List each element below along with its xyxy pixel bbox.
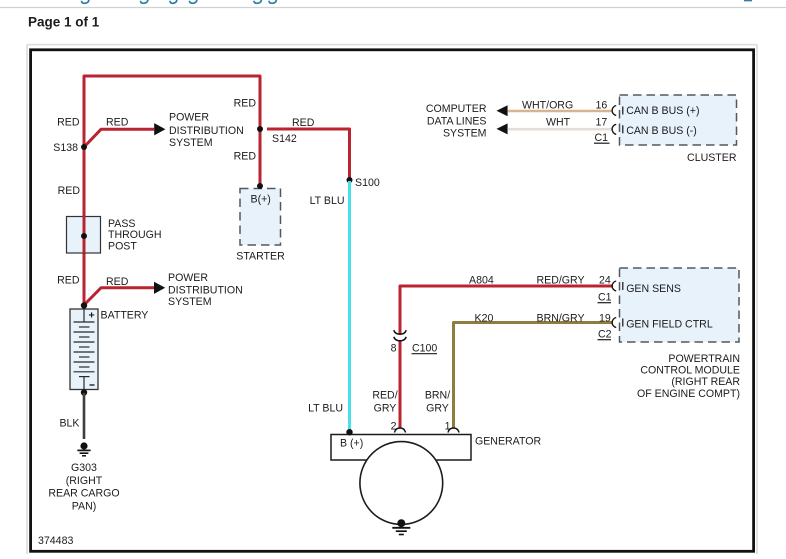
svg-text:BATTERY: BATTERY xyxy=(101,310,149,322)
svg-text:RED: RED xyxy=(106,117,129,129)
svg-text:BRN/GRY: BRN/GRY xyxy=(537,313,585,325)
svg-text:+: + xyxy=(89,310,95,322)
cluster box (dashed) xyxy=(620,95,737,145)
wire: red S138 down through pass-through post to battery xyxy=(83,147,86,305)
svg-text:RED: RED xyxy=(292,117,315,129)
label POWERTRAIN CONTROL MODULE xyxy=(637,353,740,400)
label C100 xyxy=(412,343,438,355)
svg-text:CAN B BUS (+): CAN B BUS (+) xyxy=(626,105,699,117)
svg-text:LT BLU: LT BLU xyxy=(310,195,345,207)
svg-text:19: 19 xyxy=(599,313,611,325)
svg-text:C2: C2 xyxy=(598,329,612,341)
svg-text:THROUGH: THROUGH xyxy=(108,229,162,241)
label G303 (RIGHT REAR CARGO PAN) xyxy=(48,462,119,512)
svg-text:S100: S100 xyxy=(355,177,380,189)
wire: red S142 right then down to S100 xyxy=(267,129,350,180)
svg-text:RED: RED xyxy=(234,151,257,163)
svg-text:C1: C1 xyxy=(595,132,609,144)
svg-text:POWER: POWER xyxy=(168,272,208,284)
pin24 inner tick xyxy=(622,282,624,290)
starter box (dashed) xyxy=(240,189,281,246)
svg-text:RED: RED xyxy=(58,185,81,197)
wire: RED/GRY A804 from PCM to generator pin 2 xyxy=(400,286,613,334)
svg-text:K20: K20 xyxy=(475,313,494,325)
svg-text:17: 17 xyxy=(596,116,608,128)
svg-text:G303: G303 xyxy=(71,462,97,474)
node: battery negative junction dot xyxy=(81,389,87,395)
wire WHT to cluster xyxy=(508,128,613,131)
svg-text:GEN FIELD CTRL: GEN FIELD CTRL xyxy=(626,319,713,331)
wire WHT/ORG to cluster xyxy=(508,110,613,113)
svg-text:LT BLU: LT BLU xyxy=(308,403,343,415)
label BRN/ GRY (generator pin 1) xyxy=(425,390,450,415)
label PASS THROUGH POST xyxy=(108,218,162,253)
wire: red branch S138 to power distribution system xyxy=(84,129,154,147)
svg-text:DISTRIBUTION: DISTRIBUTION xyxy=(168,285,243,297)
label POWER DISTRIBUTION SYSTEM (lower) xyxy=(168,272,243,308)
svg-text:SYSTEM: SYSTEM xyxy=(168,296,212,308)
PCM box (dashed) xyxy=(620,268,740,342)
svg-text:S138: S138 xyxy=(53,142,78,154)
battery box xyxy=(70,309,98,390)
svg-text:WHT: WHT xyxy=(546,116,571,128)
svg-text:STARTER: STARTER xyxy=(236,251,285,263)
node S142 dot xyxy=(257,126,263,132)
node: starter B(+) dot xyxy=(257,183,263,189)
battery plates xyxy=(74,309,95,390)
pin17 inner tick xyxy=(622,125,624,133)
wire: red branch battery to power distribution system xyxy=(84,288,154,305)
svg-text:RED/GRY: RED/GRY xyxy=(537,275,585,287)
svg-text:BRN/: BRN/ xyxy=(425,390,450,402)
svg-text:POWER: POWER xyxy=(169,111,209,123)
svg-text:C1: C1 xyxy=(598,292,612,304)
arrow to computer data lines (17) xyxy=(497,123,508,134)
label POWER DISTRIBUTION SYSTEM (top) xyxy=(169,111,244,149)
connector C1 pcm xyxy=(598,292,612,304)
svg-text:B (+): B (+) xyxy=(340,438,363,450)
svg-text:PASS: PASS xyxy=(108,218,135,230)
svg-text:WHT/ORG: WHT/ORG xyxy=(522,100,573,112)
node: generator B(+) dot xyxy=(346,429,352,435)
svg-text:A804: A804 xyxy=(469,275,494,287)
pin16 inner tick xyxy=(622,107,624,115)
label COMPUTER DATA LINES SYSTEM xyxy=(426,103,487,140)
svg-text:GRY: GRY xyxy=(426,403,449,415)
connector arc pin24 xyxy=(612,281,616,291)
battery minus sign xyxy=(90,384,95,386)
svg-text:RED: RED xyxy=(106,276,129,288)
svg-text:CONTROL MODULE: CONTROL MODULE xyxy=(640,365,740,377)
svg-text:PAN): PAN) xyxy=(72,500,97,512)
cut-off page heading (teal descenders) xyxy=(82,0,753,3)
svg-text:Page 1 of 1: Page 1 of 1 xyxy=(28,14,100,29)
generator body rect xyxy=(331,435,471,461)
svg-text:CAN B BUS (-): CAN B BUS (-) xyxy=(626,125,697,137)
generator pin 1 entry arc xyxy=(448,428,459,433)
connector C1 cluster xyxy=(594,132,610,144)
wire: LT BLU S100 to generator xyxy=(348,181,351,433)
svg-text:16: 16 xyxy=(596,100,608,112)
connector arc pin17 xyxy=(612,124,616,134)
svg-text:DATA LINES: DATA LINES xyxy=(427,115,487,127)
wire: BRN/GRY K20 from PCM to generator pin 1 xyxy=(454,323,614,429)
arrow to power distribution system (top) xyxy=(154,123,165,135)
svg-text:REAR CARGO: REAR CARGO xyxy=(48,488,119,500)
header rule xyxy=(0,7,786,9)
svg-text:RED: RED xyxy=(57,117,80,129)
wire: red S142 down to starter B(+) xyxy=(259,129,262,186)
svg-text:GRY: GRY xyxy=(374,403,397,415)
pass-through post box xyxy=(67,217,101,254)
label RED/ GRY (generator pin 2) xyxy=(372,390,397,415)
connector C100 arcs xyxy=(394,330,406,341)
svg-text:SYSTEM: SYSTEM xyxy=(169,137,213,149)
svg-text:GENERATOR: GENERATOR xyxy=(475,435,541,447)
svg-text:RED: RED xyxy=(234,98,257,110)
svg-text:C100: C100 xyxy=(412,343,437,355)
arrow to power distribution system (lower) xyxy=(154,282,165,294)
svg-text:RED: RED xyxy=(57,275,80,287)
svg-text:GEN SENS: GEN SENS xyxy=(626,283,681,295)
node S100 dot xyxy=(347,177,353,183)
pass-through post wire overlay xyxy=(83,216,86,253)
node: pass-through post junction dot xyxy=(81,233,87,239)
wire: BLK battery to G303 ground xyxy=(83,393,86,439)
svg-text:374483: 374483 xyxy=(38,535,73,547)
connector arc pin16 xyxy=(612,106,616,116)
ground G303 symbol xyxy=(77,442,90,455)
connector arc pin19 xyxy=(612,318,616,328)
wire: red main loop S138 up, across top, down to S142 xyxy=(84,76,260,147)
wire: RED/GRY below C100 xyxy=(399,341,402,429)
arrow to computer data lines (16) xyxy=(497,105,508,116)
svg-text:CLUSTER: CLUSTER xyxy=(687,152,737,164)
svg-text:S142: S142 xyxy=(272,133,297,145)
generator circle xyxy=(360,442,443,525)
svg-text:1: 1 xyxy=(445,421,451,433)
svg-text:8: 8 xyxy=(391,343,397,355)
svg-text:(RIGHT REAR: (RIGHT REAR xyxy=(671,376,740,388)
node: battery positive junction dot xyxy=(81,302,87,308)
generator ground symbol xyxy=(392,519,410,534)
svg-text:COMPUTER: COMPUTER xyxy=(426,103,487,115)
svg-text:POWERTRAIN: POWERTRAIN xyxy=(668,353,740,365)
generator pin 2 entry arc xyxy=(395,428,406,433)
node S138 dot xyxy=(81,144,87,150)
connector C2 pcm xyxy=(598,329,612,341)
svg-text:DISTRIBUTION: DISTRIBUTION xyxy=(169,125,244,137)
pin19 inner tick xyxy=(622,319,624,327)
svg-text:(RIGHT: (RIGHT xyxy=(66,475,103,487)
svg-text:BLK: BLK xyxy=(59,418,79,430)
svg-text:RED/: RED/ xyxy=(372,390,397,402)
svg-text:POST: POST xyxy=(108,241,137,253)
svg-text:SYSTEM: SYSTEM xyxy=(443,128,487,140)
svg-text:OF ENGINE COMPT): OF ENGINE COMPT) xyxy=(637,388,740,400)
svg-text:B(+): B(+) xyxy=(251,194,271,206)
svg-text:24: 24 xyxy=(599,275,611,287)
